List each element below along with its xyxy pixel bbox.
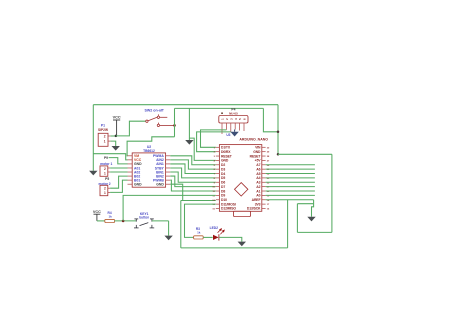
svg-text:1k: 1k [197,231,201,235]
pin nano right AREF [262,199,266,201]
pin nano left D4 [216,173,220,175]
connector P1 [98,133,108,146]
pin U2 right STBY [166,167,171,169]
wire bottom loop [181,247,288,249]
svg-text:TB6612: TB6612 [143,149,155,153]
ic U3 ARDUINO_NANO body [219,145,261,212]
pin nano left RESET [216,155,220,157]
wire P9-2 to U2 A01 [110,167,127,169]
pin U2 left GND [128,163,133,165]
connector P9 motor1 [100,166,108,176]
svg-text:U3: U3 [226,133,230,137]
svg-text:1k: 1k [109,214,113,218]
svg-text:1: 1 [104,191,106,195]
op-amp U2 TB6612 [132,153,165,187]
ground symbol left rail [89,171,97,176]
resistor R3 [194,236,204,239]
led emission arrows [218,229,225,235]
svg-text:VCC: VCC [113,116,121,120]
wire switch output vertical [174,108,176,136]
wire U2 STBY to nano [170,168,216,178]
wire P9-1 to U2 A02 [110,171,127,173]
ground symbol under P1 [112,146,120,151]
wire stub A4 [266,177,315,179]
pin stub P4-4 [234,123,236,130]
svg-text:SW2 on-off: SW2 on-off [145,108,165,112]
junction node switch output [173,124,176,127]
svg-text:NU-05: NU-05 [229,111,238,115]
pin U2 left A02 [128,171,133,173]
pin nano right A2 [262,186,266,188]
pin U2 left VCC [128,159,133,161]
pin nano right A7 [262,164,266,166]
svg-text:P1: P1 [101,124,105,128]
junction node right 2 [277,153,280,156]
wire stub A5 [266,173,315,175]
pin nano left D2 [216,164,220,166]
pin nano left D6 [216,181,220,183]
pin nano right D13/SCK [262,207,266,209]
wire top rail1 down right [277,105,279,155]
pin nano left D5 [216,177,220,179]
wire P1-1 to ground [110,141,115,146]
pin nano right 3V3 [262,203,266,205]
ground symbol mid rail [185,140,193,145]
svg-text:D12/MISO: D12/MISO [221,207,236,211]
ground symbol under P4 [234,130,236,132]
wire junction up to nano D9 [123,195,216,221]
wire stub A2 [266,186,315,188]
svg-text:15: 15 [212,208,215,210]
wire right loop right [331,154,333,232]
pin nano left D7 [216,186,220,188]
pin nano left GND [216,159,220,161]
wire to nano D10 [181,200,216,202]
wire button to ground [152,220,169,222]
svg-text:D13/SCK: D13/SCK [247,207,261,211]
pushbutton KEY1 [134,219,154,228]
svg-text:P9: P9 [104,156,108,160]
pin stub P4-2 [225,123,227,130]
switch SW2 on-off [146,114,175,126]
pin stub P9-2 [108,167,110,169]
wire rail2 corner to junction [263,108,278,131]
pin U2 right BIN1 [166,171,171,173]
wire rail2 ground stem [188,108,190,140]
ground symbol led [238,242,246,247]
svg-text:2: 2 [104,134,106,138]
wire top rail 2 [175,107,264,109]
pin nano right RESET [262,155,266,157]
pin nano left D9 [216,194,220,196]
wire R4 to button junction [115,220,137,222]
svg-text:P5: P5 [105,177,109,181]
wire left rail to U2 VCC [93,154,127,160]
pin U2 left VM [128,155,133,157]
pin nano left D11/MOSI [216,203,220,205]
pin nano right A1 [262,190,266,192]
pin U2 left B01 [128,179,133,181]
pin U2 right BIN2 [166,175,171,177]
wire VCC junction to switch input [116,121,146,136]
wire right loop top [278,153,332,155]
svg-text:button: button [139,216,149,220]
pin nano left D8 [216,190,220,192]
wire right gnd stem [312,200,314,217]
wire R3 to LED2 [203,236,213,238]
pin stub P4-6 [243,123,245,131]
wire right loop bottom [297,231,332,233]
pin U2 right PWMB [166,179,171,181]
wire U2 AIN1 to nano [170,164,216,174]
pin U2 left A01 [128,167,133,169]
wire AREF [266,199,314,201]
pin U2 left GND [128,183,133,185]
pin nano right A4 [262,177,266,179]
pin nano right +5V [262,159,266,161]
resistor R4 [105,219,115,222]
svg-text:VCC: VCC [93,210,101,214]
wire U2 PWMA to nano [170,156,216,165]
pin stub P5-1 [108,191,110,193]
pin1 polarity mark P4 [221,113,223,114]
pin nano right VIN [262,146,266,148]
wire stub A1 [266,190,315,192]
pin stub P4-5 [239,123,241,131]
svg-text:16: 16 [267,208,270,210]
pin U2 right AIN1 [166,163,171,165]
wire U2 BIN1 to nano [170,172,216,182]
wire stub A3 [266,181,315,183]
pin stub P4-1 [221,123,223,134]
svg-text:ARDUINO_NANO: ARDUINO_NANO [239,137,268,141]
svg-text:1: 1 [104,172,106,176]
svg-text:29: 29 [267,152,270,154]
pin nano left D10 [216,199,220,201]
wire AREF branch down [287,200,289,248]
pin nano left D12/MISO [216,207,220,209]
svg-text:LED2: LED2 [210,226,219,230]
svg-text:3: 3 [214,156,216,158]
svg-text:2: 2 [104,167,106,171]
pin nano right GND [262,151,266,153]
wire U2 AIN2 to nano [170,160,216,169]
wire right loop left [296,204,298,233]
pin stub P4-3 [230,123,232,132]
wire stub A6 [266,168,315,170]
connector P5 motor2 [100,185,108,195]
wire P5-2 to U2 B02 [110,176,127,188]
pin nano right A0 [262,194,266,196]
pin U2 right GND [166,183,171,185]
wire U2 right GND down [170,184,182,200]
svg-text:1: 1 [104,139,106,143]
pin U2 right AIN2 [166,159,171,161]
wire U2 PWMB to nano [170,180,216,191]
svg-text:2: 2 [104,187,106,191]
junction node VCC [115,135,118,138]
wire LED2 to ground [219,237,242,241]
pin U2 right PWMA [166,155,171,157]
junction node key [122,220,125,223]
wire P4-2 to nano D1/TX [201,130,227,147]
wire stem to nano GND [189,138,215,160]
pin nano left D3 [216,168,220,170]
wire left rail down [92,105,94,171]
svg-text:GND: GND [134,182,142,186]
pin stub P1-1 [108,140,110,142]
pin nano right A6 [262,168,266,170]
wire nano D11 to R3 [185,204,216,237]
pin stub P9-1 [108,171,110,173]
ground symbol key [164,236,172,241]
pin nano left D0/RX [216,151,220,153]
wire P4-3 to nano D0/RX [197,132,231,152]
junction node right 1 [277,131,280,134]
wire U2 BIN2 to nano [170,176,216,187]
wire down to bottom loop [180,201,182,248]
wire stub A7 [266,164,315,166]
svg-text:28: 28 [267,156,270,158]
wire stub A0 [266,194,315,196]
wire P9 area to U2 GND [109,158,128,164]
svg-text:SIP2W: SIP2W [98,128,108,132]
nano diamond mark [235,183,248,196]
svg-text:17: 17 [267,204,270,206]
wire right loop jog [297,203,313,205]
wire P5-1 to U2 B01 [110,180,127,192]
svg-text:30: 30 [267,147,270,149]
wire VCC to R4 [97,220,105,222]
wire top rail 1 [93,104,278,106]
led LED2 [213,235,219,240]
pin nano right A5 [262,173,266,175]
ground symbol right loop [307,217,315,222]
nano usb box [234,211,251,216]
svg-text:GND: GND [156,182,164,186]
pin nano left D1/TX [216,146,220,148]
wire switched VCC to U2 VM [127,137,174,156]
wire P1-2 to VCC junction [110,135,116,137]
pin stub P5-2 [108,187,110,189]
pin nano right A3 [262,181,266,183]
svg-text:27: 27 [267,160,270,162]
pin stub P1-2 [108,135,110,137]
pin U2 left B02 [128,175,133,177]
connector P4 [219,116,248,124]
